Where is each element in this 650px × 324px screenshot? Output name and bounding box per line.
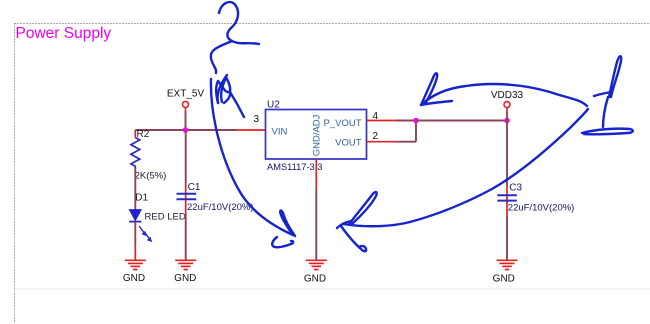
node A junction [183,127,189,133]
svg-text:U2: U2 [267,100,280,111]
wire C3 to GND4 [506,216,508,260]
pin GND of U2 [315,159,317,190]
wire node C down to C3 [506,121,508,186]
wire node A down to R2 top [134,130,136,138]
svg-text:D1: D1 [135,193,148,204]
pin 3 of U2 [236,114,266,130]
annotation glyph right side [582,56,633,134]
svg-text:3: 3 [253,114,259,125]
wire VDD33 to node C [506,111,508,121]
wire node A down to C1 [185,130,187,183]
capacitor C1 [177,194,197,199]
svg-text:R2: R2 [137,129,150,140]
wire pin 4 to node B [397,120,417,122]
annotation pen curve left of U2 [211,41,244,117]
svg-text:EXT_5V: EXT_5V [167,89,205,100]
node B junction [413,118,419,124]
wire D1 to GND1 [134,222,136,244]
wire C1 to GND2 [185,214,187,260]
svg-text:RED LED: RED LED [145,212,186,223]
LED D1 [129,210,152,243]
svg-text:GND: GND [123,273,145,284]
wire node A right to pin 3 [186,129,237,131]
power port VDD33 [491,90,524,111]
wire node B to node C [416,120,507,122]
ground GND1 [123,260,146,284]
wire pin 2 to node B [397,121,417,142]
svg-text:22uF/10V(20%): 22uF/10V(20%) [508,202,575,213]
svg-text:Power Supply: Power Supply [16,25,112,42]
svg-text:4: 4 [373,111,379,122]
svg-text:C1: C1 [188,182,201,193]
annotation long curved arrow to GND area [211,79,295,247]
svg-text:GND: GND [493,274,515,285]
svg-text:GND/ADJ: GND/ADJ [312,114,323,156]
svg-text:VIN: VIN [272,127,288,138]
wire R2 to D1 [134,169,136,210]
wire node A left to R2 [135,129,185,131]
svg-text:P_VOUT: P_VOUT [323,118,361,129]
svg-text:VOUT: VOUT [335,138,362,149]
annotation upper arrow over VDD33 [421,73,587,106]
svg-text:2: 2 [373,131,379,142]
annotation pen squiggle top [219,2,259,44]
ground GND2 [174,260,196,284]
power port EXT_5V [167,89,205,111]
wire EXT_5V to node A [185,111,187,130]
svg-text:22uF/10V(20%): 22uF/10V(20%) [187,202,254,213]
regulator U2 body [266,110,367,160]
pin 2 of U2 [367,131,397,142]
svg-text:C3: C3 [509,183,522,194]
node C junction [504,118,510,124]
ground GND3 [304,260,327,284]
annotation big left arrow [337,109,588,251]
capacitor C3 [497,195,517,200]
svg-text:GND: GND [304,274,326,285]
resistor R2 [131,138,140,169]
svg-text:AMS1117-3.3: AMS1117-3.3 [267,162,322,172]
pin 4 of U2 [367,111,397,122]
svg-text:VDD33: VDD33 [491,90,524,101]
ground GND4 [493,260,518,284]
svg-text:GND: GND [174,273,196,284]
svg-text:2K(5%): 2K(5%) [135,171,167,182]
wire U2 GND pin to GND3 [315,190,317,260]
